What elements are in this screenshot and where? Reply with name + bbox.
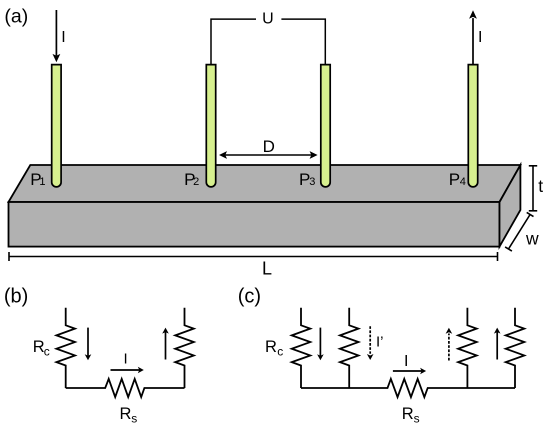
svg-text:I: I	[61, 29, 65, 46]
svg-text:1: 1	[39, 176, 45, 188]
svg-text:c: c	[44, 345, 50, 359]
svg-text:I: I	[124, 351, 128, 368]
svg-text:2: 2	[193, 176, 199, 188]
svg-text:c: c	[277, 345, 283, 359]
svg-text:t: t	[538, 176, 543, 196]
svg-text:I: I	[404, 353, 408, 370]
svg-text:(c): (c)	[238, 286, 261, 308]
svg-text:P: P	[449, 170, 460, 189]
svg-text:(a): (a)	[4, 6, 28, 28]
svg-text:w: w	[525, 229, 539, 249]
svg-text:(b): (b)	[4, 286, 28, 308]
svg-text:4: 4	[460, 176, 466, 188]
svg-text:R: R	[120, 405, 132, 423]
svg-text:I’: I’	[376, 334, 384, 351]
svg-text:R: R	[265, 338, 277, 356]
svg-text:s: s	[414, 412, 420, 426]
svg-text:I: I	[478, 29, 482, 46]
svg-text:U: U	[262, 11, 274, 28]
svg-text:3: 3	[309, 176, 315, 188]
svg-text:s: s	[131, 412, 137, 426]
svg-text:R: R	[402, 405, 414, 423]
svg-text:L: L	[262, 259, 272, 279]
svg-text:D: D	[263, 137, 275, 156]
